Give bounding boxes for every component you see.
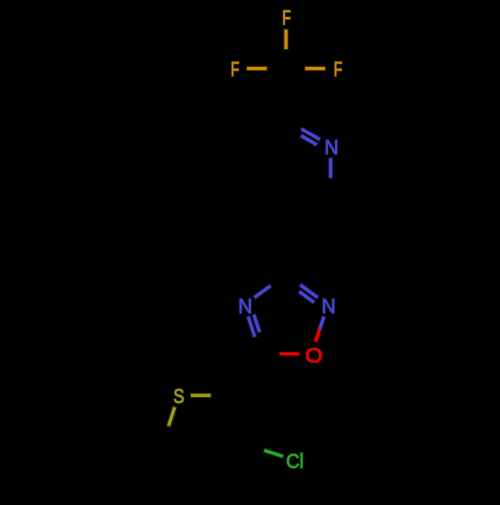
svg-text:N: N [238,296,252,318]
atom label O (oxadiazole O1) [305,343,322,367]
wire: pyridine C2=N1 double bond, N-colored halves [300,128,321,145]
wire: oxadiazole N2-O1 bond (blue N half + red O half) [315,316,324,343]
atom label N (oxadiazole N4, left) [238,296,252,318]
atom label F (left fluorine of CF3) [231,58,240,81]
wire: bond C-F (top F), F-colored half [283,28,288,50]
atom label Cl (chlorine) [286,452,304,474]
wire: thiophene S1-C5 bond, S-colored half [168,406,175,427]
wire: bond C-F (right F), F-colored half [304,66,326,71]
svg-text:F: F [231,58,240,81]
wire: oxadiazole C3=N2 double bond, N-colored halves [299,284,319,303]
wire: bond C3-Cl, Cl-colored half [263,450,284,457]
wire: pyridine N1-C6 bond, N-colored half [328,157,333,179]
wire: oxadiazole O1-C5 bond, O-colored half [279,351,301,356]
atom label F (right fluorine of CF3) [334,58,343,81]
atom label F (top fluorine of CF3) [282,6,291,29]
svg-text:S: S [173,384,184,407]
wire: bond C-F (left F), F-colored half [246,66,268,71]
svg-text:O: O [305,343,322,367]
wire: thiophene S1-C2 bond, S-colored half [190,393,212,398]
atom label N (oxadiazole N2, right) [322,296,336,318]
svg-text:F: F [282,6,291,29]
wire: oxadiazole C5=N4 double bond, N-colored halves [248,314,260,338]
wire: oxadiazole N4-C3 bond, N-colored half [254,285,272,298]
atom label S (thiophene S1) [173,384,184,407]
svg-text:N: N [324,137,338,159]
svg-text:F: F [334,58,343,81]
svg-text:N: N [322,296,336,318]
atom label N (pyridine N1) [324,137,338,159]
svg-text:Cl: Cl [286,452,304,474]
